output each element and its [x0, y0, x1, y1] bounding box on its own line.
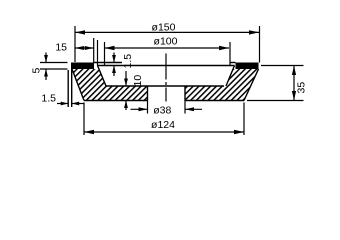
recess far-side top edge line: [98, 65, 235, 67]
rim top face stub right: [230, 62, 236, 64]
dim 1.5 top upper shaft: [113, 53, 115, 63]
dim ø100 line: [105, 47, 230, 49]
arrowhead ø100 left: [105, 46, 115, 50]
dim 35 upper ext: [261, 65, 304, 67]
dim 35 line: [293, 66, 295, 101]
dim 1.5 bottom left tail: [57, 103, 68, 105]
web top and hole far-side edge line: [106, 85, 224, 87]
inner cone slope right: [226, 66, 235, 87]
arrowhead ø150 right: [249, 30, 259, 34]
arrowhead ø124 right: [234, 130, 244, 134]
outer slope edge left: [72, 69, 84, 101]
web bottom right: [185, 100, 244, 102]
arrowhead ø150 left: [75, 30, 85, 34]
dim ø38 extension left: [147, 101, 149, 114]
dim 15 line: [75, 47, 94, 49]
hole edge left: [147, 86, 149, 101]
arrowhead ø38 right-pointing: [139, 107, 148, 111]
step edge extension left: [97, 40, 99, 66]
arrowhead 1.5 top down: [112, 55, 116, 63]
dim ø100 extension right and step edge: [229, 42, 231, 66]
svg-text:1.5: 1.5: [41, 93, 56, 105]
dim 5 upper ext: [40, 62, 68, 64]
svg-text:5: 5: [31, 68, 43, 74]
cone wall and web section left (hatched): [72, 69, 148, 101]
arrowhead 1.5 top up: [112, 66, 116, 74]
dim 10 upper shaft: [125, 71, 127, 86]
dim ø150 extension right: [259, 26, 261, 63]
arrowhead 1.5 bottom left-pointing: [72, 102, 80, 106]
dim 35 lower ext: [247, 100, 304, 102]
dim ø100 extension left: [104, 42, 106, 66]
dim ø124 extension left: [83, 103, 85, 136]
web bottom left: [84, 100, 148, 102]
svg-text:10: 10: [132, 75, 144, 87]
arrowhead ø100 right: [219, 46, 229, 50]
arrowhead 5 up: [44, 69, 48, 77]
cone wall and web section right (hatched): [185, 69, 259, 101]
svg-text:1.5: 1.5: [122, 54, 134, 69]
dim 1.5 top lower shaft: [113, 66, 115, 77]
dim ø150 line: [75, 31, 260, 33]
dim 5 lower shaft: [45, 69, 47, 80]
svg-text:ø150: ø150: [152, 22, 176, 34]
rim flange left (solid black thin section): [71, 63, 94, 70]
rim flange right (solid black thin section): [236, 63, 259, 70]
dim 5 upper shaft: [45, 53, 47, 63]
skirt outer line left: [67, 70, 69, 107]
arrowhead 5 down: [44, 55, 48, 63]
dim ø38 line left: [131, 108, 148, 110]
arrowhead 10 up: [124, 101, 128, 109]
hole edge right: [184, 86, 186, 101]
dim ø124 line: [84, 131, 244, 133]
svg-text:ø38: ø38: [153, 104, 171, 116]
arrowhead 1.5 bottom right-pointing: [61, 102, 68, 106]
arrowhead 35 up: [292, 66, 296, 76]
svg-text:15: 15: [55, 42, 67, 54]
arrowhead 35 down: [292, 91, 296, 101]
inner cone slope left: [98, 66, 107, 87]
dim 5 lower ext: [40, 68, 68, 70]
arrowhead ø38 left-pointing: [185, 107, 194, 111]
skirt inner line left: [71, 69, 73, 107]
svg-text:ø100: ø100: [154, 36, 178, 48]
arrowhead 15 left: [75, 46, 84, 50]
dim ø38 extension right: [184, 101, 186, 114]
dim 15 extension: [93, 38, 95, 63]
svg-text:35: 35: [296, 82, 308, 94]
outer slope edge right: [244, 69, 259, 101]
dim ø150 extension left: [74, 26, 76, 62]
arrowhead ø124 left: [84, 130, 94, 134]
centerline: [165, 54, 167, 102]
dim ø124 extension right: [243, 103, 245, 136]
arrowhead 15 right: [85, 46, 94, 50]
svg-text:ø124: ø124: [151, 119, 175, 131]
dim 1.5 bottom right tail: [72, 103, 84, 105]
rim top face stub left: [94, 62, 122, 64]
dim ø38 line right: [185, 108, 202, 110]
arrowhead 10 down: [124, 79, 128, 87]
dim 10 lower shaft: [125, 101, 127, 111]
